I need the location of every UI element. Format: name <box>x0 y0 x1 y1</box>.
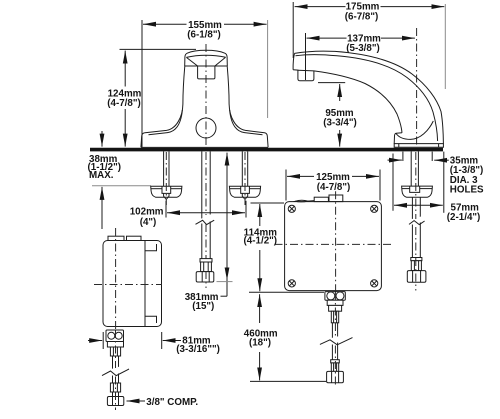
handle right mounting bolt <box>229 151 260 205</box>
box vertical centerline <box>335 191 337 292</box>
box outlet fitting with hose <box>317 292 356 387</box>
svg-text:(18"): (18") <box>249 337 271 348</box>
dimension 155mm handle width <box>142 20 268 147</box>
side box horizontal centerline <box>94 284 162 286</box>
side box top tabs <box>108 236 124 240</box>
svg-text:(4"): (4") <box>140 217 157 228</box>
handle faucet body <box>141 50 268 147</box>
handle base bottom edge <box>141 146 268 148</box>
handle centerline <box>205 44 207 147</box>
box corner screw bottom-right <box>371 280 378 287</box>
spout base inner sweep <box>396 121 433 139</box>
dimension 102mm bolt spacing <box>130 201 246 228</box>
dimension 137mm spout reach <box>306 33 415 80</box>
dimension 460mm hose length <box>244 294 326 381</box>
spout inner top curve <box>296 55 438 141</box>
dimension 57mm <box>393 152 480 223</box>
svg-text:3/8" COMP.: 3/8" COMP. <box>146 397 198 408</box>
dimension 381mm supply length <box>185 153 233 312</box>
label 3/8 inch compression <box>127 397 199 408</box>
box top inlet fittings <box>314 197 328 201</box>
spout centerline <box>416 28 418 147</box>
svg-text:(6-1/8"): (6-1/8") <box>187 29 221 40</box>
dimension 35mm dia holes <box>388 152 485 196</box>
dimension 95mm spout clearance <box>318 83 357 147</box>
box corner screw bottom-left <box>288 280 295 287</box>
dimension 38mm max deck thickness <box>88 131 152 229</box>
handle body right side and foot <box>227 66 268 147</box>
spout outer top curve <box>295 51 444 143</box>
dimension 124mm handle height <box>107 49 196 146</box>
svg-text:(3-3/16""): (3-3/16"") <box>176 344 220 355</box>
dimension 114mm box height <box>244 203 324 292</box>
svg-text:HOLES: HOLES <box>450 184 484 195</box>
svg-text:102mm: 102mm <box>130 206 164 217</box>
svg-text:(4-7/8"): (4-7/8") <box>107 98 141 109</box>
svg-text:(2-1/4"): (2-1/4") <box>447 212 481 223</box>
spout body <box>293 51 443 147</box>
box corner screw top-left <box>288 205 295 212</box>
svg-text:MAX.: MAX. <box>89 170 114 181</box>
side box cover line <box>144 241 146 327</box>
handle cap outline <box>185 50 228 66</box>
spout tip front edge <box>293 53 294 69</box>
handle stem <box>198 66 215 79</box>
svg-text:(4-7/8"): (4-7/8") <box>317 182 351 193</box>
svg-text:(6-7/8"): (6-7/8") <box>345 11 379 22</box>
box horizontal centerline <box>275 243 392 245</box>
svg-text:(15"): (15") <box>192 301 214 312</box>
box top cable gasket <box>295 200 308 202</box>
box corner screw top-right <box>371 205 378 212</box>
spout nozzle <box>293 70 314 81</box>
side box outlet fittings and hose <box>99 330 132 410</box>
dimension 81mm box depth <box>88 332 220 355</box>
countertop deck <box>90 148 443 152</box>
handle center supply tube <box>194 151 222 288</box>
handle body left side and foot <box>141 66 185 147</box>
handle cap inner edge <box>186 55 225 57</box>
control box front view <box>275 191 392 292</box>
spout shank and supply hose <box>402 151 433 290</box>
svg-text:(3-3/4"): (3-3/4") <box>323 118 357 129</box>
svg-text:(4-1/2"): (4-1/2") <box>244 236 278 247</box>
side box vertical centerline <box>115 228 117 330</box>
handle base pushbutton circle <box>196 118 216 138</box>
spout bottom curve <box>298 70 402 133</box>
dimension 125mm box width <box>286 170 380 201</box>
spout base left edge <box>394 133 402 144</box>
spout base flange <box>394 144 443 148</box>
svg-text:(5-3/8"): (5-3/8") <box>346 43 380 54</box>
handle left mounting bolt <box>151 151 182 205</box>
control box side view <box>94 228 162 330</box>
dimension 175mm spout length <box>293 2 445 89</box>
